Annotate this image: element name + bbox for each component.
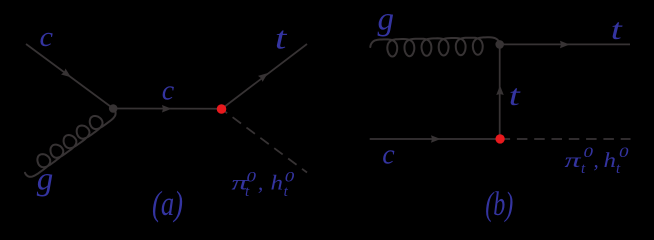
gluon g (curly line, diagram b) [370,37,499,56]
gluon g (curly line, diagram a) [25,109,116,177]
vertex dot red (FCNC vertex, diagram b) [495,134,504,143]
svg-text:t: t [509,79,521,112]
svg-text:h: h [271,171,284,195]
svg-text:g: g [378,2,395,38]
svg-text:t: t [611,13,623,46]
vertex dot red (FCNC vertex, diagram a) [217,104,227,114]
svg-text:g: g [37,161,54,197]
svg-text:c: c [40,22,54,53]
svg-text:c: c [382,139,395,170]
arrow on incoming c line (a) [61,68,71,77]
svg-text:(b): (b) [485,186,513,223]
svg-text:0: 0 [619,145,629,161]
arrow on outgoing t line (a) [258,73,268,82]
arrow on internal t propagator (up) [496,85,504,95]
svg-text:h: h [604,148,617,172]
vertex dot (gluon-quark vertex, diagram a) [109,104,118,113]
svg-text:t: t [275,21,288,56]
svg-text:,: , [594,148,599,172]
svg-text:π: π [565,148,582,172]
label pi_t^0, h_t^0 (diagram a) [232,170,295,201]
label pi_t^0, h_t^0 (diagram b) [565,145,630,177]
dashed scalar line (b) [505,138,631,140]
arrow on outgoing t line (b) [560,41,570,49]
vertex dot (gluon-top vertex, diagram b) [495,40,504,49]
wire: incoming c quark line (b) [370,138,500,140]
wire: outgoing t quark line (b) [500,43,630,45]
svg-text:c: c [162,75,175,106]
svg-text:0: 0 [584,145,594,161]
wire: outgoing t quark line (a) [222,44,308,109]
wire: internal t propagator (vertical, b) [499,44,501,139]
svg-text:,: , [258,171,263,195]
arrow on incoming c line (b) [431,135,441,143]
dashed scalar line (a) [222,109,308,173]
arrow on internal c propagator (a) [162,105,172,113]
wire: internal c propagator (a) [113,108,221,110]
wire: incoming c quark line (a) [26,44,113,109]
svg-text:(a): (a) [152,184,183,223]
